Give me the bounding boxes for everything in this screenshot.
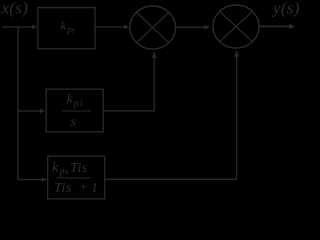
- svg-text:k: k: [52, 161, 59, 176]
- wire output arrowhead: [289, 24, 295, 29]
- summer U2 X diagonal 2: [220, 11, 253, 41]
- svg-text:1: 1: [91, 181, 98, 196]
- wire tap to integrator block G2: [18, 110, 40, 112]
- wire arrowhead into block G3: [42, 177, 48, 182]
- svg-text:k: k: [67, 92, 74, 107]
- summer U1 circle: [130, 6, 176, 49]
- value label Tis+1 denominator: [54, 179, 98, 196]
- svg-text:Tis: Tis: [54, 181, 72, 196]
- wire arrowhead into block G1: [32, 25, 38, 30]
- block G3 derivative box: [48, 156, 105, 199]
- wire branch rail down from input junction: [17, 27, 19, 180]
- block G2 integrator box: [46, 89, 103, 132]
- fraction bar of G2: [62, 110, 91, 112]
- wire integrator output up to summer U1: [104, 57, 155, 111]
- summer U1 X diagonal 2: [137, 12, 169, 42]
- wire derivative output up to summer U2: [105, 56, 237, 179]
- wire arrowhead into summer U1: [124, 25, 130, 30]
- summer U2 circle: [213, 5, 259, 48]
- svg-text:k: k: [61, 18, 67, 33]
- svg-text:+: +: [79, 179, 88, 194]
- summer U1 X diagonal 1: [137, 12, 169, 42]
- value label kpi numerator: [67, 92, 84, 110]
- block G1 proportional gain box: [38, 8, 95, 49]
- svg-text:s: s: [71, 115, 77, 130]
- svg-text:ps: ps: [66, 25, 76, 35]
- wire G1 output to summer U1: [95, 26, 125, 28]
- node y(s) output label: [271, 0, 300, 18]
- svg-text:Tis: Tis: [70, 161, 88, 176]
- fraction bar of G3: [56, 177, 91, 179]
- wire arrowhead into block G2: [40, 109, 46, 114]
- wire arrowhead up into summer U1: [152, 51, 157, 58]
- wire summer U1 to summer U2: [176, 26, 205, 28]
- wire output to y(s): [259, 25, 290, 27]
- svg-text:x(s): x(s): [1, 0, 29, 18]
- svg-text:ps: ps: [59, 167, 69, 178]
- wire arrowhead up into summer U2: [234, 50, 239, 57]
- wire tap to derivative block G3: [18, 179, 42, 181]
- wire arrowhead into summer U2: [204, 25, 210, 30]
- svg-text:y(s): y(s): [271, 0, 300, 18]
- summer U2 X diagonal 1: [220, 11, 253, 41]
- wire input from x(s): [2, 26, 32, 28]
- svg-text:pi: pi: [73, 99, 84, 110]
- node x(s) input label: [1, 0, 29, 18]
- value label kps: [61, 18, 76, 35]
- value label s denominator: [71, 115, 77, 130]
- value label kps·Tis numerator: [52, 161, 88, 178]
